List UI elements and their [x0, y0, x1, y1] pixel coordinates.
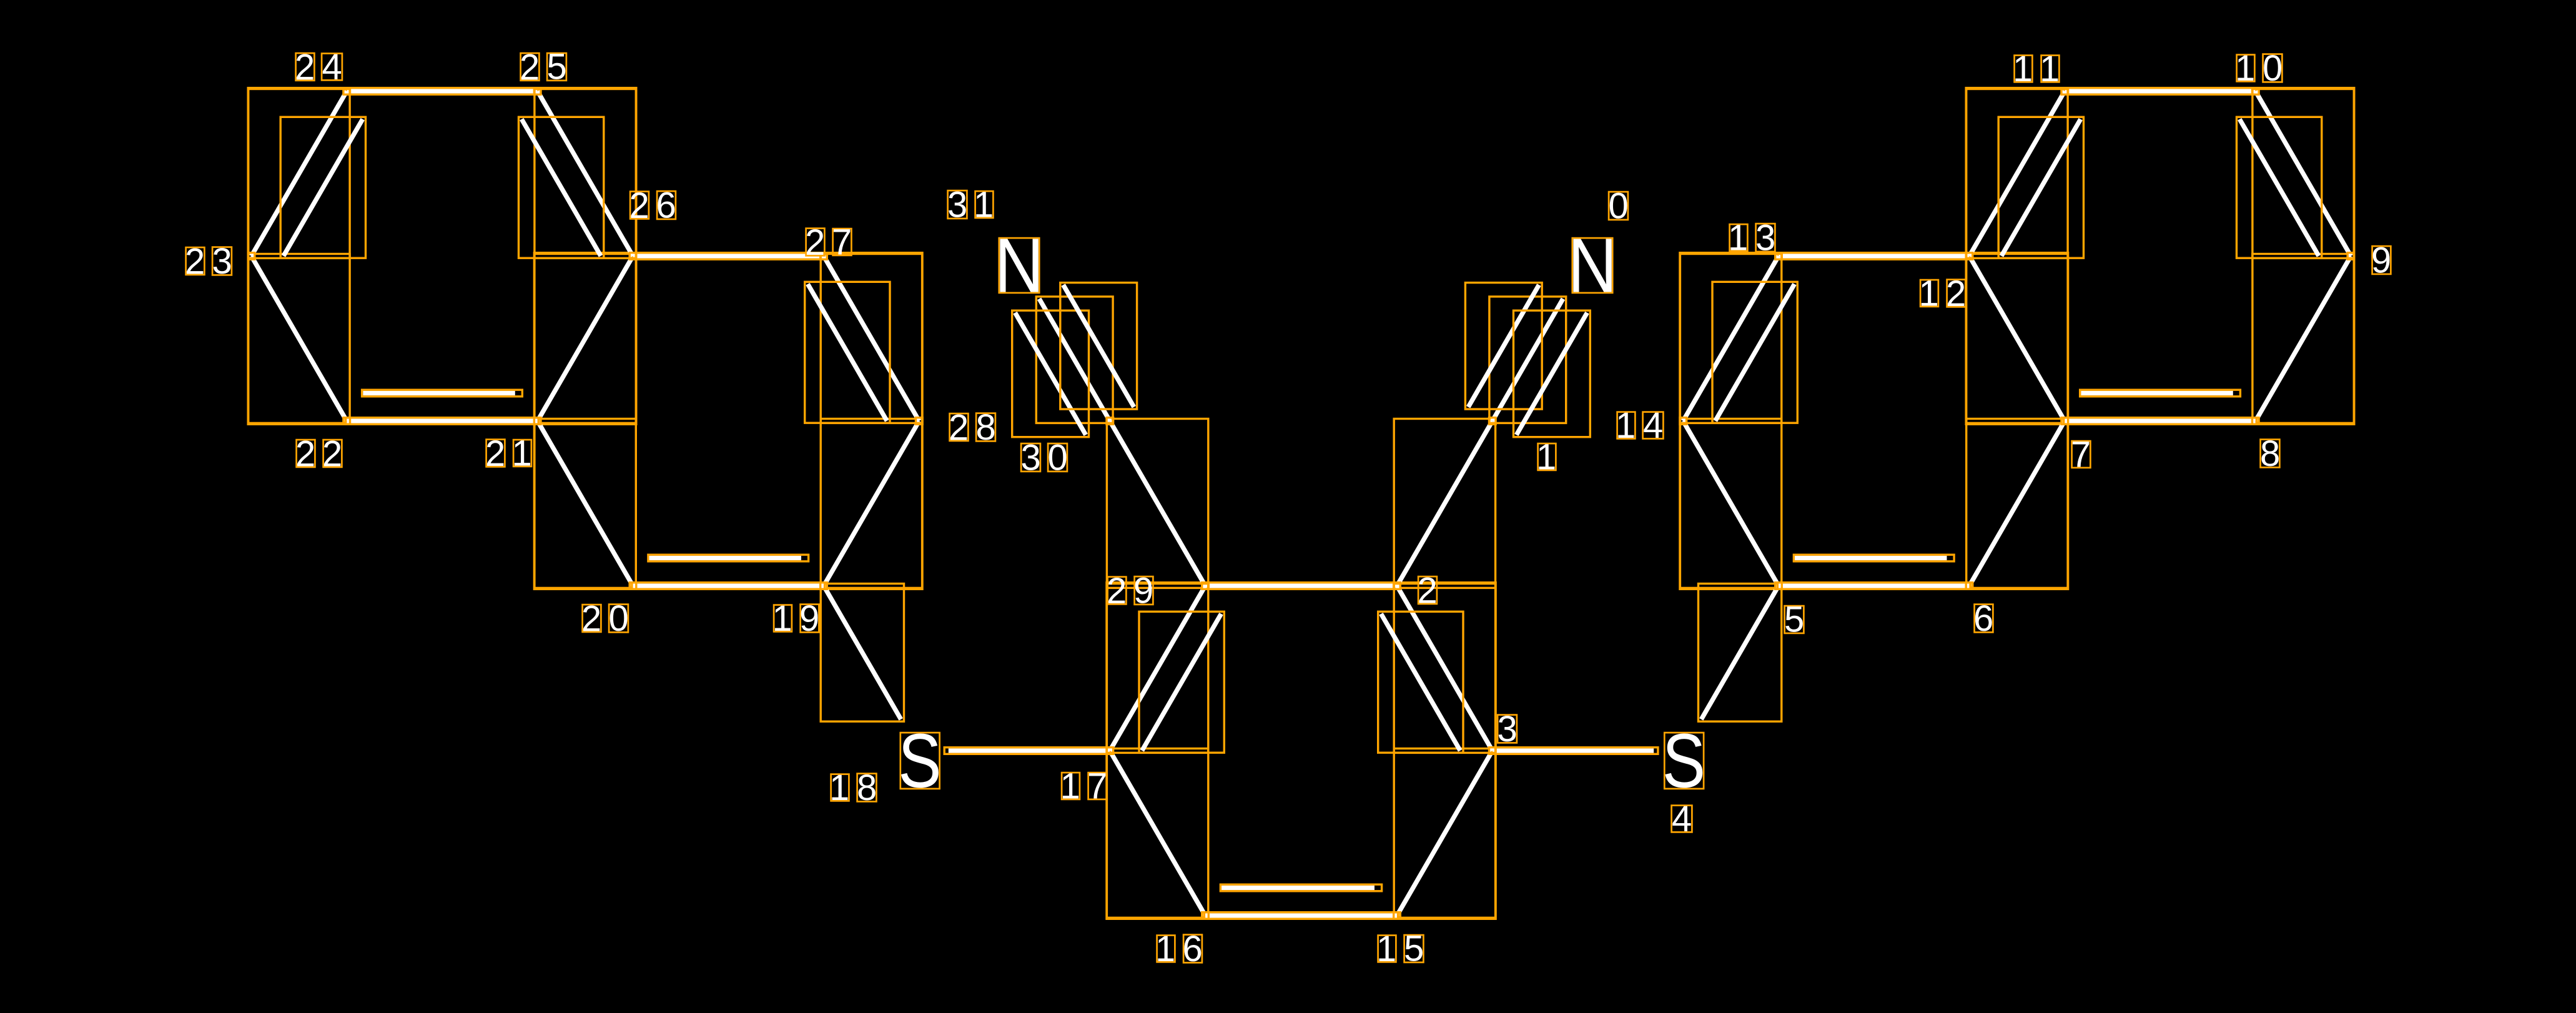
- double bond 17=29 inner line: [1139, 611, 1224, 753]
- svg-text:2: 2: [949, 408, 969, 448]
- svg-text:N: N: [1567, 222, 1617, 309]
- bond 2-1: [1394, 419, 1495, 588]
- double bond 11=12 inner line: [1998, 117, 2083, 258]
- svg-text:6: 6: [1183, 929, 1203, 969]
- label 4: [1672, 799, 1692, 839]
- bond 3-4: [1491, 748, 1658, 754]
- bond 17-18: [944, 748, 1111, 754]
- svg-text:1: 1: [772, 598, 792, 639]
- svg-text:8: 8: [2260, 433, 2280, 474]
- bond 28-19: [821, 419, 922, 588]
- svg-text:5: 5: [1404, 929, 1424, 969]
- svg-text:2: 2: [322, 434, 342, 475]
- label 13: [1728, 218, 1775, 259]
- bond 5-14: [1680, 419, 1781, 588]
- label 28: [949, 407, 996, 448]
- ring box ring1 (22-23-24-25-26-21): [248, 88, 636, 425]
- label 11: [2013, 49, 2060, 89]
- bond 9-8: [2253, 254, 2354, 423]
- svg-text:3: 3: [212, 241, 232, 282]
- svg-text:2: 2: [185, 242, 205, 282]
- label 12: [1919, 274, 1967, 315]
- svg-text:2: 2: [295, 47, 315, 88]
- svg-text:2: 2: [581, 599, 601, 640]
- double bond 13=14 main line: [1680, 254, 1781, 423]
- svg-text:1: 1: [1728, 218, 1748, 259]
- svg-text:1: 1: [1616, 405, 1636, 446]
- svg-text:1: 1: [829, 768, 849, 808]
- double bond 27=28 inner line: [805, 282, 890, 423]
- atom 18 S glyph: [898, 718, 941, 804]
- svg-text:8: 8: [976, 407, 996, 448]
- label 15: [1376, 929, 1424, 970]
- double bond 19=20 inner line: [648, 555, 809, 561]
- svg-text:4: 4: [1643, 405, 1663, 446]
- atom 6 box: [1966, 583, 1973, 590]
- atom 24 box: [343, 88, 350, 95]
- label 9: [2371, 240, 2391, 281]
- atom 0 N glyph: [1567, 222, 1617, 309]
- svg-text:3: 3: [1498, 709, 1517, 749]
- double bond 19=20 main line: [632, 583, 825, 590]
- atom 19 box: [821, 583, 827, 590]
- svg-text:4: 4: [322, 47, 342, 87]
- label 6: [1973, 598, 1993, 639]
- double bond 2=3 inner line: [1378, 611, 1463, 753]
- svg-text:2: 2: [295, 434, 315, 475]
- svg-text:N: N: [994, 222, 1044, 309]
- bond 20-21: [535, 419, 636, 588]
- triple bond 30#31 side line a: [1012, 310, 1089, 437]
- label 27: [805, 222, 852, 264]
- double bond 9=10 inner line: [2237, 117, 2322, 258]
- atom 22 box: [343, 418, 350, 425]
- double bond 5=6 main line: [1777, 583, 1970, 590]
- double bond 7=8 inner line: [2080, 390, 2241, 397]
- svg-text:1: 1: [512, 433, 532, 474]
- svg-text:2: 2: [1418, 571, 1438, 611]
- svg-text:4: 4: [1672, 799, 1692, 839]
- svg-text:0: 0: [2263, 48, 2282, 89]
- label 31: [947, 185, 994, 225]
- atom 9 box: [2347, 253, 2354, 260]
- label 0: [1609, 186, 1629, 227]
- double bond 11=12 main line: [1967, 89, 2068, 259]
- atom 2 box: [1394, 583, 1401, 590]
- label 19: [772, 598, 820, 639]
- atom 5 box: [1775, 583, 1782, 590]
- svg-text:1: 1: [1919, 274, 1939, 314]
- atom 27 box: [821, 253, 827, 260]
- svg-text:2: 2: [629, 185, 649, 226]
- bond 12-7: [1967, 254, 2068, 423]
- label 5: [1784, 600, 1804, 640]
- bond 29-2: [1204, 583, 1398, 590]
- atom 4 S glyph: [1662, 718, 1705, 804]
- atom 8 box: [2253, 418, 2259, 425]
- label 8: [2260, 433, 2280, 474]
- svg-text:1: 1: [1060, 766, 1080, 807]
- svg-text:1: 1: [1155, 929, 1175, 969]
- atom 31 N glyph: [994, 222, 1044, 309]
- atom 3 box: [1489, 748, 1496, 754]
- atom 30 box: [1107, 418, 1113, 425]
- double bond 25=26 main line: [535, 89, 636, 259]
- bond 18-19: [821, 584, 904, 722]
- svg-text:6: 6: [1973, 598, 1993, 639]
- label 26: [629, 185, 676, 227]
- atom 10 box: [2253, 88, 2259, 95]
- atom 29 box: [1202, 583, 1209, 590]
- double bond 17=29 main line: [1107, 584, 1208, 753]
- label 3: [1498, 709, 1517, 749]
- label 16: [1155, 929, 1203, 969]
- svg-text:1: 1: [1376, 929, 1396, 969]
- triple bond 1#0 side line a: [1465, 283, 1542, 409]
- double bond 2=3 main line: [1394, 584, 1495, 753]
- atom 23 box: [248, 253, 255, 260]
- bond 13-12: [1777, 253, 1970, 260]
- triple bond 1#0 side line b: [1514, 310, 1591, 437]
- svg-text:2: 2: [485, 433, 505, 474]
- label 29: [1107, 571, 1153, 612]
- svg-text:1: 1: [2235, 48, 2255, 89]
- label 23: [185, 241, 232, 282]
- svg-text:3: 3: [1755, 218, 1775, 259]
- label 10: [2235, 48, 2282, 89]
- double bond 15=16 main line: [1204, 912, 1398, 919]
- svg-text:1: 1: [2013, 49, 2033, 89]
- double bond 27=28 main line: [821, 254, 922, 423]
- label 18: [829, 768, 877, 808]
- svg-text:3: 3: [947, 185, 967, 225]
- double bond 9=10 main line: [2253, 89, 2354, 259]
- atom 20 box: [629, 583, 636, 590]
- bond 24-25: [346, 88, 539, 95]
- bond 11-10: [2064, 88, 2257, 95]
- label 7: [2071, 435, 2091, 475]
- bond 21-26: [535, 254, 636, 423]
- double bond 25=26 inner line: [519, 117, 604, 258]
- double bond 5=6 inner line: [1794, 555, 1954, 561]
- svg-text:9: 9: [799, 598, 819, 639]
- ring box ring2 (21-26-27-28-19-20): [534, 253, 922, 590]
- bond 16-17: [1107, 749, 1208, 918]
- label 17: [1060, 766, 1108, 807]
- double bond 23=24 main line: [249, 89, 350, 259]
- svg-text:2: 2: [520, 47, 540, 88]
- svg-text:2: 2: [1107, 571, 1127, 611]
- atom 15 box: [1394, 912, 1401, 919]
- svg-text:0: 0: [1609, 186, 1629, 227]
- svg-text:7: 7: [832, 222, 852, 263]
- label 14: [1616, 405, 1663, 446]
- svg-text:1: 1: [1536, 437, 1556, 478]
- atom 16 box: [1202, 912, 1209, 919]
- label 2: [1418, 571, 1438, 611]
- atom 13 box: [1775, 253, 1782, 260]
- label 21: [485, 433, 532, 475]
- svg-text:7: 7: [2071, 435, 2091, 475]
- ring box central ring (29-2-3-15-16-17): [1107, 583, 1496, 919]
- svg-text:9: 9: [2371, 240, 2391, 281]
- bond 3-15: [1394, 749, 1495, 918]
- atom 17 box: [1107, 748, 1113, 754]
- bond 22-23: [249, 254, 350, 423]
- atom 11 box: [2061, 88, 2068, 95]
- double bond 7=8 main line: [2064, 418, 2257, 425]
- label 30: [1021, 438, 1068, 478]
- svg-text:6: 6: [656, 185, 676, 226]
- svg-text:1: 1: [2040, 49, 2060, 89]
- svg-text:8: 8: [857, 768, 877, 808]
- bond 29-30: [1107, 419, 1208, 588]
- label 1: [1536, 437, 1556, 478]
- bond 4-5: [1699, 584, 1782, 722]
- svg-text:1: 1: [974, 185, 994, 225]
- ring box ring5 (12-11-10-9-8-7): [1966, 88, 2354, 425]
- svg-text:0: 0: [1048, 438, 1068, 478]
- double bond 15=16 inner line: [1220, 884, 1381, 891]
- svg-text:9: 9: [1133, 571, 1153, 611]
- label 24: [295, 47, 342, 88]
- svg-text:5: 5: [547, 47, 567, 87]
- atom 21 box: [534, 418, 541, 425]
- atom 1 box: [1489, 418, 1496, 425]
- svg-text:0: 0: [609, 598, 629, 639]
- atom 25 box: [534, 88, 541, 95]
- svg-text:2: 2: [805, 222, 825, 263]
- double bond 21=22 main line: [346, 418, 539, 425]
- double bond 21=22 inner line: [362, 390, 523, 397]
- bond 7-6: [1967, 419, 2068, 588]
- triple bond 30#31 axis line: [1036, 297, 1113, 423]
- atom 12 box: [1966, 253, 1973, 260]
- svg-text:3: 3: [1021, 438, 1041, 478]
- triple bond 30#31 side line b: [1060, 283, 1137, 409]
- label 20: [581, 598, 629, 640]
- svg-text:S: S: [898, 718, 941, 804]
- atom 14 box: [1680, 418, 1687, 425]
- label 25: [520, 47, 567, 88]
- double bond 13=14 inner line: [1712, 282, 1797, 423]
- svg-text:S: S: [1662, 718, 1705, 804]
- label 22: [295, 434, 342, 475]
- atom 28 box: [916, 418, 923, 425]
- triple bond 1#0 axis line: [1489, 297, 1566, 423]
- double bond 23=24 inner line: [280, 117, 365, 258]
- svg-text:5: 5: [1784, 600, 1804, 640]
- svg-text:7: 7: [1087, 766, 1107, 807]
- bond 26-27: [632, 253, 825, 260]
- atom 26 box: [629, 253, 636, 260]
- atom 7 box: [2061, 418, 2068, 425]
- svg-text:2: 2: [1946, 274, 1966, 314]
- ring box ring4 (14-13-12-7-6-5): [1680, 253, 2068, 590]
